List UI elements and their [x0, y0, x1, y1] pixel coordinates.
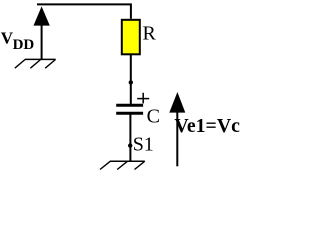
svg-text:C: C: [147, 105, 160, 127]
ground (bottom): [100, 161, 145, 169]
node S1 dot: [128, 143, 132, 147]
voltage arrow Ve1: [169, 92, 185, 166]
label VDD: [1, 28, 35, 53]
wire top rail (VDD arrow to resistor): [37, 4, 131, 18]
polarity + sign: [137, 93, 149, 104]
svg-text:DD: DD: [13, 37, 35, 53]
svg-text:Ve1=Vc: Ve1=Vc: [174, 115, 240, 137]
resistor R: [122, 20, 140, 55]
svg-text:R: R: [143, 22, 157, 44]
svg-text:S1: S1: [133, 134, 154, 156]
wire resistor to capacitor: [130, 55, 132, 104]
wire capacitor to ground: [129, 114, 131, 161]
capacitor C plates: [116, 105, 143, 113]
ground (under VDD): [15, 59, 56, 68]
node junction dot: [129, 80, 133, 84]
power source VDD arrow: [34, 6, 50, 59]
